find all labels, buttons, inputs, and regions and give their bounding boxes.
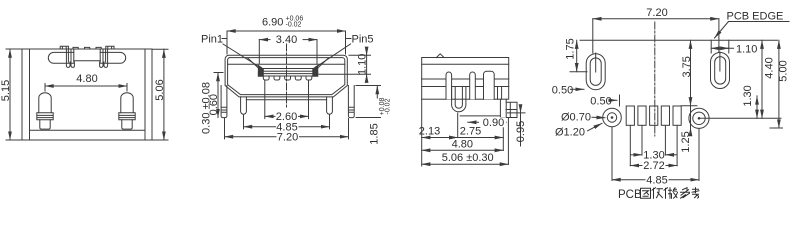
svg-text:0.95: 0.95 <box>515 121 527 142</box>
view2 leg inner-left <box>241 97 247 114</box>
dim 3.75 bottom extension <box>681 105 697 107</box>
svg-text:4.40: 4.40 <box>764 57 776 78</box>
dim 1.30 right line <box>756 96 758 118</box>
view2 contact bump 5 <box>306 76 312 80</box>
svg-text:Pin1: Pin1 <box>201 34 223 46</box>
dim 4.85 pcb line <box>612 179 699 181</box>
view2 leg outer-right <box>348 86 354 118</box>
view2 tongue left post <box>258 66 263 77</box>
view3 interior line 1 <box>422 78 509 80</box>
dim 4.40 line <box>761 40 763 118</box>
dim 0.95 line <box>520 113 522 146</box>
view3 top band line <box>422 63 509 65</box>
view1 top small tab 1 <box>73 47 78 49</box>
view3 right leg <box>500 99 506 117</box>
dim 0.90 line <box>468 121 506 123</box>
svg-text:1.85: 1.85 <box>369 123 381 144</box>
dim 3.75 line <box>690 40 692 106</box>
glyph tu (drawing) <box>641 188 700 199</box>
dim 0.50b arrow <box>611 99 618 101</box>
dim 1.30 bottom arrows <box>631 154 642 156</box>
svg-text:5.00: 5.00 <box>778 60 790 81</box>
svg-text:2.13: 2.13 <box>419 126 440 138</box>
svg-text:2.72: 2.72 <box>643 160 664 172</box>
svg-text:0.90: 0.90 <box>483 117 504 129</box>
pin5 leader <box>316 44 351 67</box>
svg-text:5.06 ±0.30: 5.06 ±0.30 <box>442 152 494 164</box>
view2 contact bump 4 <box>295 76 301 80</box>
right oval center line <box>719 52 721 71</box>
view3 pin 2 <box>470 72 476 99</box>
dim 4.80 line <box>45 85 127 87</box>
view2 slot chamfer right <box>318 58 329 68</box>
dim 1.75 line <box>576 40 578 71</box>
dim 4.80 extension ticks <box>44 84 46 92</box>
svg-text:7.20: 7.20 <box>277 131 298 143</box>
view1 top small tab 3 <box>96 47 101 49</box>
svg-text:0.60: 0.60 <box>208 94 220 115</box>
dim chain extension right <box>502 118 504 151</box>
dim 2.60 left extension <box>264 80 266 119</box>
dim 3.40 left extension <box>258 40 260 64</box>
dim 7.20 right extension view2 <box>348 119 350 139</box>
view2 slot ceiling line <box>228 63 345 65</box>
dim 6.90 left extension <box>226 31 228 54</box>
text 2.72 <box>643 161 666 171</box>
svg-text:Ø1.20: Ø1.20 <box>555 127 585 139</box>
leader dia 0.70 <box>592 116 605 118</box>
text 2.60 <box>276 112 299 122</box>
svg-text:3.40: 3.40 <box>276 34 297 46</box>
view2 tongue top line <box>258 68 317 70</box>
view3 U hook inner <box>455 87 462 108</box>
view2 insulator bottom line <box>246 99 326 101</box>
dim 1.10 pcb line <box>711 47 733 49</box>
dim chain extension mid <box>457 113 459 138</box>
text 4.85 pcb <box>646 175 669 185</box>
view1 right post tower <box>100 49 108 67</box>
dim 7.20 pcb line <box>593 18 719 20</box>
right oval inner <box>715 57 726 85</box>
svg-text:1.75: 1.75 <box>565 38 577 59</box>
svg-text:3.75: 3.75 <box>681 56 693 77</box>
view3 weld triangle <box>436 54 444 58</box>
dim 2.60 right extension <box>308 80 310 119</box>
svg-text:PCB EDGE: PCB EDGE <box>727 11 784 23</box>
glyph kao (consider) <box>692 188 699 198</box>
dim 2.13 2.75 mid arrows <box>445 137 458 139</box>
glyph can (refer) <box>681 188 690 199</box>
svg-text:-0.02: -0.02 <box>286 22 302 29</box>
dim 0.95 top arrow <box>520 106 522 113</box>
glyph zuo (make) <box>664 188 678 199</box>
svg-text:6.90: 6.90 <box>262 17 283 29</box>
view1 left peg collar <box>37 113 53 120</box>
bottom dim extensions <box>611 127 613 180</box>
pad 2 <box>638 106 646 125</box>
dim 7.20 right drop <box>718 19 720 52</box>
left circle dot <box>611 117 613 119</box>
dim 1.10 view2 top arrow <box>366 49 368 56</box>
dim 5.15 line <box>9 49 11 140</box>
extension circle-center right <box>699 117 781 119</box>
dim 0.50a arrow <box>571 88 585 90</box>
dim 4.85 left extension <box>243 115 245 129</box>
view1 right peg collar <box>119 113 135 120</box>
view1 left peg foot <box>40 120 50 129</box>
left oval center line <box>595 53 597 72</box>
pcb edge leader shelf <box>729 21 790 23</box>
right oval outer <box>711 53 730 89</box>
svg-text:0.50: 0.50 <box>552 84 573 96</box>
svg-text:4.85: 4.85 <box>646 174 667 186</box>
dim 1.10 view2 bottom arrow <box>366 74 368 81</box>
pcb edge leader <box>715 22 729 39</box>
view3 wide tab <box>484 71 495 99</box>
view2 slot chamfer left <box>248 58 259 68</box>
view2 contact bump 2 <box>274 76 280 80</box>
view3 pin 1 <box>446 72 452 99</box>
dim 5.06pm line <box>422 163 509 165</box>
svg-text:2.75: 2.75 <box>460 126 481 138</box>
dim 1.10 pcb right extension <box>728 40 730 53</box>
view1 inner left wall <box>29 49 31 140</box>
pad 4 <box>661 106 669 125</box>
dim 4.85 line <box>244 126 330 128</box>
pcb edge line <box>580 39 778 41</box>
view1 top tab left block <box>60 46 68 49</box>
pad 1 <box>626 106 634 125</box>
dim 1.10 bottom extension <box>319 73 371 75</box>
view2 tongue bar <box>258 71 317 76</box>
dim 3.40 right extension <box>316 40 318 64</box>
dim 7.20 line view2 <box>225 136 349 138</box>
left oval inner <box>590 58 601 86</box>
view3 foot rect <box>506 102 517 117</box>
view2 shell inner <box>228 58 345 95</box>
view2 centerline <box>286 44 288 109</box>
view1 right latch pill <box>100 52 126 63</box>
dim 4.85 right extension <box>329 115 331 129</box>
view3 small lines right <box>498 87 502 100</box>
dim 5.15 bottom extension <box>6 139 22 141</box>
text 0.90 <box>479 117 506 127</box>
tongue level extension left <box>214 72 223 74</box>
svg-text:7.20: 7.20 <box>646 7 667 19</box>
dim 5.06 bottom extension <box>152 139 168 141</box>
dim 5.06 line <box>163 49 165 140</box>
dim 1.25 bottom arrow <box>690 128 692 135</box>
dim 1.10 top extension <box>349 54 371 56</box>
right circle inner <box>693 112 705 124</box>
leader dia 1.20 <box>588 123 603 131</box>
svg-text:-0.02: -0.02 <box>385 98 392 114</box>
svg-text:4.80: 4.80 <box>76 73 97 85</box>
dim chain extension left <box>421 99 423 166</box>
dim 1.25 line <box>690 106 692 128</box>
svg-text:Pin5: Pin5 <box>352 34 374 46</box>
dim 0.95 extension <box>508 112 526 114</box>
view2 contact bump 1 <box>263 76 269 80</box>
view1 left post tower <box>66 49 74 67</box>
dim 2.60 line <box>265 115 309 117</box>
dim 7.20 left extension view2 <box>224 119 226 139</box>
dim 5.06 extension right <box>507 118 509 165</box>
svg-text:1.10: 1.10 <box>357 54 369 75</box>
extension 5.00 bottom <box>770 127 783 129</box>
view3 U hook outer <box>452 87 466 112</box>
dim 1.75 bottom extension <box>570 71 587 73</box>
svg-text:0.50: 0.50 <box>590 95 611 107</box>
view1 right peg head <box>121 93 133 113</box>
pad 3 <box>650 106 658 125</box>
view3 bottom reference line <box>460 115 500 117</box>
view2 tongue right post <box>313 66 318 77</box>
dim 5.15 top extension <box>6 48 22 50</box>
pin1 tick <box>222 38 227 40</box>
centerline pcb <box>654 22 656 136</box>
right circle dot <box>698 118 700 120</box>
view2 contact bump 3 <box>285 76 291 80</box>
dim 6.90 line <box>227 30 346 32</box>
svg-text:5.06: 5.06 <box>154 79 166 100</box>
dim 1.85 top extension <box>356 85 381 87</box>
text 7.20 view2 <box>277 132 300 142</box>
dim 1.85 bottom extension <box>356 117 381 119</box>
svg-text:4.80: 4.80 <box>452 138 473 150</box>
pin5 tick <box>346 38 352 40</box>
view1 latch connecting line <box>74 60 100 62</box>
view1 body outer rect <box>22 49 152 140</box>
left oval outer <box>586 54 605 90</box>
view3 interior line 2 <box>422 86 509 88</box>
svg-text:1.10: 1.10 <box>736 43 757 55</box>
left circle outer <box>603 108 622 127</box>
dim 5.06 top extension <box>152 48 168 50</box>
view3 body rect <box>422 58 509 100</box>
left circle inner <box>607 113 616 122</box>
dim 3.40 line right <box>303 39 317 41</box>
glyph jin (only) <box>652 188 663 199</box>
dim 1.10 view2 line <box>366 55 368 74</box>
right circle outer <box>689 108 709 128</box>
view2 leg inner-right <box>327 97 333 114</box>
svg-text:1.25: 1.25 <box>680 131 692 152</box>
view1 right peg foot <box>122 120 132 129</box>
dim 1.10 pcb left extension <box>710 40 712 53</box>
dim 6.90 right extension <box>345 31 347 54</box>
dim 0.60 0.30 line <box>217 73 219 118</box>
view1 top small tab 2 <box>85 47 90 49</box>
pin1 leader <box>223 44 260 67</box>
svg-text:1.30: 1.30 <box>742 85 754 106</box>
view2 shell outer <box>225 55 347 97</box>
dim 5.00 line <box>778 40 780 128</box>
pad 5 <box>673 106 681 125</box>
svg-text:PCB: PCB <box>618 189 642 201</box>
dim 1.85 line <box>376 86 378 99</box>
view2 leg outer-left <box>221 86 227 118</box>
dim 3.40 line left <box>259 39 270 41</box>
view1 left latch pill <box>48 52 74 63</box>
view1 left peg head <box>39 93 51 113</box>
svg-text:Ø0.70: Ø0.70 <box>561 111 591 123</box>
dim 4.80 view3 line <box>422 149 504 151</box>
view1 top tab right block <box>106 46 114 49</box>
dim 2.13 2.75 line <box>422 137 504 139</box>
dim 0.50b tick <box>619 95 621 106</box>
dim 7.20 left drop <box>592 19 594 53</box>
dim 2.72 line <box>630 165 677 167</box>
view1 inner bottom wall <box>30 129 146 131</box>
view1 inner right wall <box>144 49 146 140</box>
svg-text:5.15: 5.15 <box>0 80 12 101</box>
text 4.85 view2 <box>276 122 299 132</box>
